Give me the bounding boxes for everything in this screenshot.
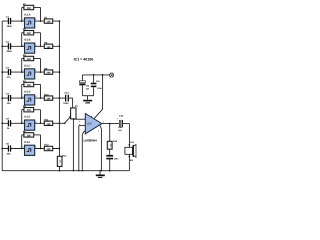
svg-text:7: 7 xyxy=(86,134,87,137)
svg-text:C6: C6 xyxy=(6,143,10,146)
svg-text:100n: 100n xyxy=(97,87,102,90)
svg-text:16V: 16V xyxy=(118,129,122,132)
svg-text:1: 1 xyxy=(22,69,23,72)
svg-text:P1: P1 xyxy=(75,105,79,108)
svg-text:C1: C1 xyxy=(6,15,10,18)
svg-text:C2: C2 xyxy=(6,41,10,44)
svg-text:33n: 33n xyxy=(7,152,12,155)
svg-text:1M: 1M xyxy=(27,134,30,137)
svg-text:1u: 1u xyxy=(7,127,10,130)
svg-text:100n: 100n xyxy=(63,102,69,105)
svg-text:LM386N4: LM386N4 xyxy=(84,138,98,142)
svg-text:IC1.B: IC1.B xyxy=(24,39,31,42)
svg-text:10u: 10u xyxy=(86,85,90,88)
svg-text:4: 4 xyxy=(98,130,99,133)
svg-text:C3: C3 xyxy=(6,66,10,69)
svg-text:1: 1 xyxy=(22,18,23,21)
svg-text:1: 1 xyxy=(22,146,23,149)
svg-text:10k: 10k xyxy=(47,148,52,151)
svg-text:IC1.A: IC1.A xyxy=(24,14,31,17)
svg-text:LS1: LS1 xyxy=(130,141,135,144)
svg-text:10k: 10k xyxy=(47,98,52,101)
svg-text:10k: 10k xyxy=(47,72,52,75)
svg-text:47n: 47n xyxy=(7,76,12,79)
svg-text:10k: 10k xyxy=(47,123,52,126)
svg-text:C5: C5 xyxy=(6,118,10,121)
svg-text:2: 2 xyxy=(79,123,80,126)
svg-text:R14: R14 xyxy=(113,140,118,143)
svg-text:1M: 1M xyxy=(27,109,30,112)
svg-text:1: 1 xyxy=(22,120,23,123)
svg-text:16V: 16V xyxy=(86,88,90,91)
svg-text:R10: R10 xyxy=(44,93,49,96)
svg-text:IC1 = 40106: IC1 = 40106 xyxy=(74,57,94,61)
svg-text:C4: C4 xyxy=(6,92,10,95)
svg-text:1: 1 xyxy=(22,43,23,46)
svg-text:8Ω: 8Ω xyxy=(130,159,133,162)
svg-text:IC1.F: IC1.F xyxy=(24,141,31,144)
svg-text:100n: 100n xyxy=(114,158,119,161)
svg-text:1M: 1M xyxy=(27,32,30,35)
svg-text:C16: C16 xyxy=(119,115,124,118)
svg-text:C15: C15 xyxy=(96,80,101,83)
svg-text:+: + xyxy=(117,118,119,121)
svg-text:IC2: IC2 xyxy=(87,123,92,126)
svg-text:R12: R12 xyxy=(44,144,49,147)
svg-text:R13: R13 xyxy=(62,154,67,157)
svg-text:5: 5 xyxy=(103,120,104,123)
svg-text:3: 3 xyxy=(79,120,80,123)
svg-text:100n: 100n xyxy=(7,25,13,28)
svg-text:1M: 1M xyxy=(27,84,30,87)
svg-text:IC1.D: IC1.D xyxy=(24,91,31,94)
svg-text:1: 1 xyxy=(22,95,23,98)
svg-text:IC1.C: IC1.C xyxy=(24,65,31,68)
svg-text:1M: 1M xyxy=(27,58,30,61)
svg-text:10k: 10k xyxy=(47,21,52,24)
svg-text:C13: C13 xyxy=(64,92,69,95)
svg-text:10k: 10k xyxy=(47,46,52,49)
svg-text:R11: R11 xyxy=(44,119,49,122)
svg-text:10n: 10n xyxy=(7,102,12,105)
svg-text:1M: 1M xyxy=(27,7,30,10)
svg-text:IC1.E: IC1.E xyxy=(24,116,31,119)
svg-text:220n: 220n xyxy=(7,50,13,53)
